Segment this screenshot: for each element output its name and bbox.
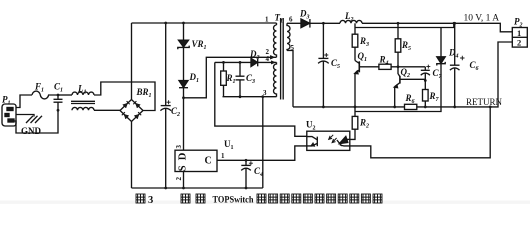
caption figure 3 bbox=[136, 194, 382, 206]
svg-text:RETURN: RETURN bbox=[466, 97, 503, 107]
ground earth symbol bbox=[26, 116, 42, 123]
scan artifact band bbox=[0, 201, 530, 204]
resistor R5 bbox=[395, 22, 401, 68]
transformer T1 core bbox=[281, 18, 284, 100]
zener D4 bbox=[437, 57, 445, 66]
svg-text:C1: C1 bbox=[54, 82, 63, 94]
svg-text:R5: R5 bbox=[401, 40, 411, 52]
svg-text:D1: D1 bbox=[189, 72, 200, 84]
svg-text:S: S bbox=[178, 165, 189, 171]
resistor R6 current sense bbox=[405, 104, 417, 109]
svg-text:1: 1 bbox=[265, 16, 269, 24]
capacitor C1 bbox=[54, 94, 63, 112]
svg-text:R1: R1 bbox=[226, 73, 236, 85]
svg-text:GND: GND bbox=[21, 126, 42, 136]
diode D2 bbox=[251, 58, 277, 66]
capacitor C6 bbox=[450, 22, 465, 108]
svg-text:3: 3 bbox=[148, 195, 153, 206]
transformer T1 secondary winding bbox=[287, 23, 290, 50]
capacitor C5 bbox=[318, 22, 329, 108]
diode D1 bbox=[179, 81, 188, 151]
bridge rectifier BR1 bbox=[120, 100, 143, 122]
resistor R4 bbox=[379, 64, 425, 69]
TOPSwitch U1 bbox=[175, 150, 217, 171]
TVS VR1 bbox=[178, 22, 189, 81]
capacitor C7 bbox=[421, 65, 431, 82]
svg-text:R3: R3 bbox=[359, 36, 369, 48]
wire bias rail with diode D2 to pin 4 bbox=[215, 61, 251, 63]
wire plug bottom terminal to bottom AC line bbox=[14, 110, 59, 133]
wire primary bottom rail bbox=[132, 187, 263, 189]
wire pin 5 to secondary ground rail bbox=[287, 51, 293, 107]
svg-text:C5: C5 bbox=[331, 58, 340, 70]
svg-text:C6: C6 bbox=[470, 60, 479, 72]
wire L1 top over bridge to right AC vertex bbox=[94, 82, 155, 111]
optocoupler U2 bbox=[307, 131, 350, 150]
svg-text:C: C bbox=[205, 156, 212, 167]
wire top AC line into choke bbox=[58, 94, 72, 96]
svg-text:VR1: VR1 bbox=[192, 39, 207, 51]
inductor L1 common-mode choke bbox=[71, 92, 95, 110]
wire bridge plus output up to top rail bbox=[131, 23, 133, 100]
svg-text:6: 6 bbox=[289, 16, 293, 24]
wire U1 source to ground rail bbox=[182, 172, 185, 190]
fuse F1 bbox=[32, 91, 58, 99]
transistor Q2 bbox=[393, 67, 425, 109]
wire primary top rail bbox=[132, 22, 277, 24]
capacitor C3 bbox=[236, 61, 245, 98]
svg-text:Q1: Q1 bbox=[358, 51, 368, 63]
wire bridge minus output down to bottom rail bbox=[131, 122, 133, 189]
resistor R1 bbox=[221, 61, 227, 97]
svg-text:R6: R6 bbox=[405, 93, 415, 105]
resistor R3 bbox=[352, 23, 358, 60]
svg-text:C2: C2 bbox=[171, 106, 180, 118]
svg-text:C4: C4 bbox=[254, 166, 263, 178]
wire secondary ground rail left part bbox=[293, 106, 405, 108]
transformer T1 bias winding bbox=[274, 62, 277, 96]
wire secondary ground rail right part bbox=[417, 42, 513, 107]
wire U1 control pin to optocoupler emitter bbox=[217, 146, 307, 160]
svg-text:Q2: Q2 bbox=[401, 67, 411, 79]
svg-text:4: 4 bbox=[266, 55, 270, 63]
svg-text:2: 2 bbox=[175, 177, 183, 181]
svg-text:3: 3 bbox=[263, 89, 267, 97]
svg-text:10 V, 1 A: 10 V, 1 A bbox=[464, 13, 500, 23]
svg-text:1: 1 bbox=[517, 28, 521, 38]
wire bias supply to optocoupler collector bbox=[215, 62, 307, 136]
svg-text:2: 2 bbox=[517, 38, 521, 48]
svg-text:D: D bbox=[178, 152, 189, 160]
svg-text:R7: R7 bbox=[429, 91, 440, 103]
svg-text:BR1: BR1 bbox=[136, 87, 152, 99]
svg-text:D4: D4 bbox=[448, 48, 459, 60]
wire optocoupler LED cathode to return bbox=[350, 106, 491, 158]
resistor R7 bbox=[423, 81, 429, 109]
resistor R2 bbox=[350, 107, 358, 139]
svg-text:1: 1 bbox=[221, 152, 225, 160]
svg-text:R2: R2 bbox=[359, 118, 369, 130]
svg-text:U1: U1 bbox=[224, 139, 234, 151]
diode D3 bbox=[287, 19, 323, 28]
wire bias second line bbox=[355, 23, 454, 27]
wire plug top terminal to fuse line bbox=[16, 95, 33, 108]
plug P1 body bbox=[2, 104, 16, 126]
wire L1 bottom to left AC vertex bbox=[94, 109, 120, 111]
wire plug middle terminal to earth bbox=[16, 115, 35, 117]
connector P2 bbox=[512, 28, 527, 48]
transformer T1 primary winding bbox=[274, 23, 277, 57]
wire drain node to transformer pin 2 bbox=[184, 57, 277, 98]
capacitor C4 bbox=[241, 159, 253, 190]
svg-text:TOPSwitch: TOPSwitch bbox=[213, 196, 255, 206]
wire pin3 node down to primary ground bbox=[261, 95, 264, 188]
transistor Q1 bbox=[354, 61, 379, 109]
wire bias bottom rail to pin 3 bbox=[223, 96, 277, 98]
wire zener branch D4 with lower return link bbox=[355, 28, 441, 112]
inductor L2 bbox=[340, 20, 362, 23]
svg-text:C3: C3 bbox=[246, 73, 255, 85]
wire top line C5 to L2 bbox=[323, 22, 340, 24]
svg-text:3: 3 bbox=[175, 145, 183, 149]
capacitor C2 bbox=[160, 22, 171, 190]
svg-text:U2: U2 bbox=[306, 120, 316, 132]
wire output top line bbox=[362, 23, 512, 32]
